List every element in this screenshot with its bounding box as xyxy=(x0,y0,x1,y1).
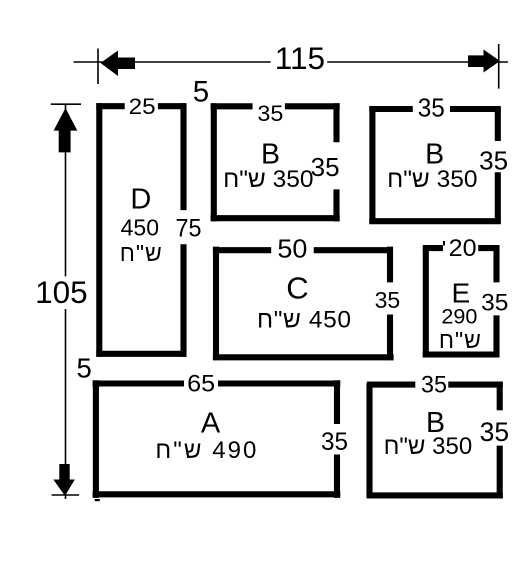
rectangle C xyxy=(213,247,394,361)
rectangle A xyxy=(93,380,341,498)
left dimension top tick xyxy=(51,103,81,105)
svg-text:35: 35 xyxy=(480,417,509,447)
svg-text:350 ש"ח: 350 ש"ח xyxy=(223,166,313,193)
svg-text:20: 20 xyxy=(449,235,477,262)
svg-text:290: 290 xyxy=(441,305,477,329)
svg-text:50: 50 xyxy=(277,236,307,264)
svg-text:35: 35 xyxy=(375,287,401,313)
svg-text:450: 450 xyxy=(121,215,159,241)
left dimension down block arrow xyxy=(53,464,75,496)
rectangle B2 (top right) xyxy=(369,106,500,224)
svg-text:105: 105 xyxy=(35,274,88,310)
E top gap small tick mark xyxy=(443,241,445,246)
svg-text:35: 35 xyxy=(311,152,340,182)
top dimension left block arrow xyxy=(101,51,136,77)
top dimension right block arrow xyxy=(468,50,500,73)
svg-text:D: D xyxy=(130,184,151,216)
svg-text:350 ש"ח: 350 ש"ח xyxy=(387,166,477,193)
top dimension left tick xyxy=(97,49,99,85)
svg-text:350 ש"ח: 350 ש"ח xyxy=(384,433,473,460)
svg-text:5: 5 xyxy=(193,76,209,109)
svg-text:35: 35 xyxy=(321,428,348,456)
left dimension up block arrow xyxy=(54,108,78,152)
svg-text:A: A xyxy=(201,408,221,440)
svg-text:65: 65 xyxy=(187,370,215,397)
svg-text:115: 115 xyxy=(275,40,325,76)
svg-text:ש"ח: ש"ח xyxy=(439,327,482,353)
svg-text:25: 25 xyxy=(129,94,156,119)
left dimension line xyxy=(65,104,67,499)
svg-text:5: 5 xyxy=(77,353,92,384)
rectangle D xyxy=(96,103,186,357)
svg-text:75: 75 xyxy=(176,214,202,242)
top dimension right tick xyxy=(498,44,500,89)
rectangle E xyxy=(423,245,500,357)
svg-text:ש"ח: ש"ח xyxy=(120,240,163,266)
stray mark below A bottom-left corner xyxy=(95,499,100,501)
svg-text:450 ש"ח: 450 ש"ח xyxy=(257,307,351,334)
svg-text:35: 35 xyxy=(418,92,445,122)
left dimension bottom tick xyxy=(52,494,80,496)
svg-text:35: 35 xyxy=(257,101,283,126)
svg-text:35: 35 xyxy=(481,290,508,317)
svg-text:35: 35 xyxy=(479,146,508,176)
rectangle B1 (top middle) xyxy=(211,103,340,221)
svg-text:C: C xyxy=(286,271,308,306)
svg-text:35: 35 xyxy=(421,372,447,399)
rectangle B3 (bottom right) xyxy=(367,383,503,498)
top dimension line xyxy=(74,61,508,63)
